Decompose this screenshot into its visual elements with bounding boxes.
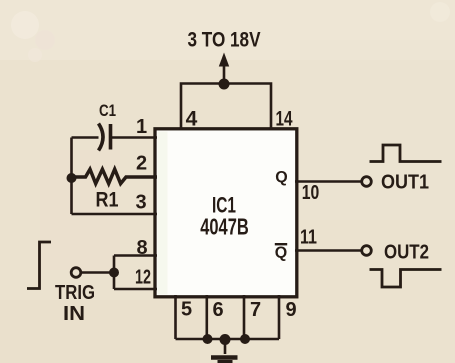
svg-text:Q: Q (275, 245, 287, 262)
svg-text:6: 6 (212, 299, 223, 321)
svg-text:8: 8 (136, 237, 147, 259)
svg-text:OUT1: OUT1 (381, 172, 429, 194)
svg-text:C1: C1 (99, 101, 116, 120)
svg-text:OUT2: OUT2 (384, 242, 429, 264)
svg-text:11: 11 (300, 227, 317, 249)
svg-text:9: 9 (285, 299, 296, 321)
svg-text:3: 3 (135, 192, 146, 214)
svg-text:2: 2 (136, 153, 147, 175)
svg-text:R1: R1 (96, 189, 119, 212)
svg-text:IN: IN (63, 303, 85, 325)
svg-text:4047B: 4047B (200, 214, 249, 240)
svg-text:10: 10 (302, 182, 320, 204)
svg-text:TRIG: TRIG (55, 282, 95, 304)
svg-text:4: 4 (186, 108, 198, 131)
svg-text:14: 14 (276, 108, 293, 131)
svg-text:7: 7 (250, 299, 261, 321)
svg-text:1: 1 (136, 116, 147, 138)
svg-text:3 TO 18V: 3 TO 18V (188, 29, 261, 52)
svg-text:Q: Q (275, 169, 287, 186)
svg-text:5: 5 (181, 299, 192, 321)
svg-text:12: 12 (135, 267, 151, 289)
